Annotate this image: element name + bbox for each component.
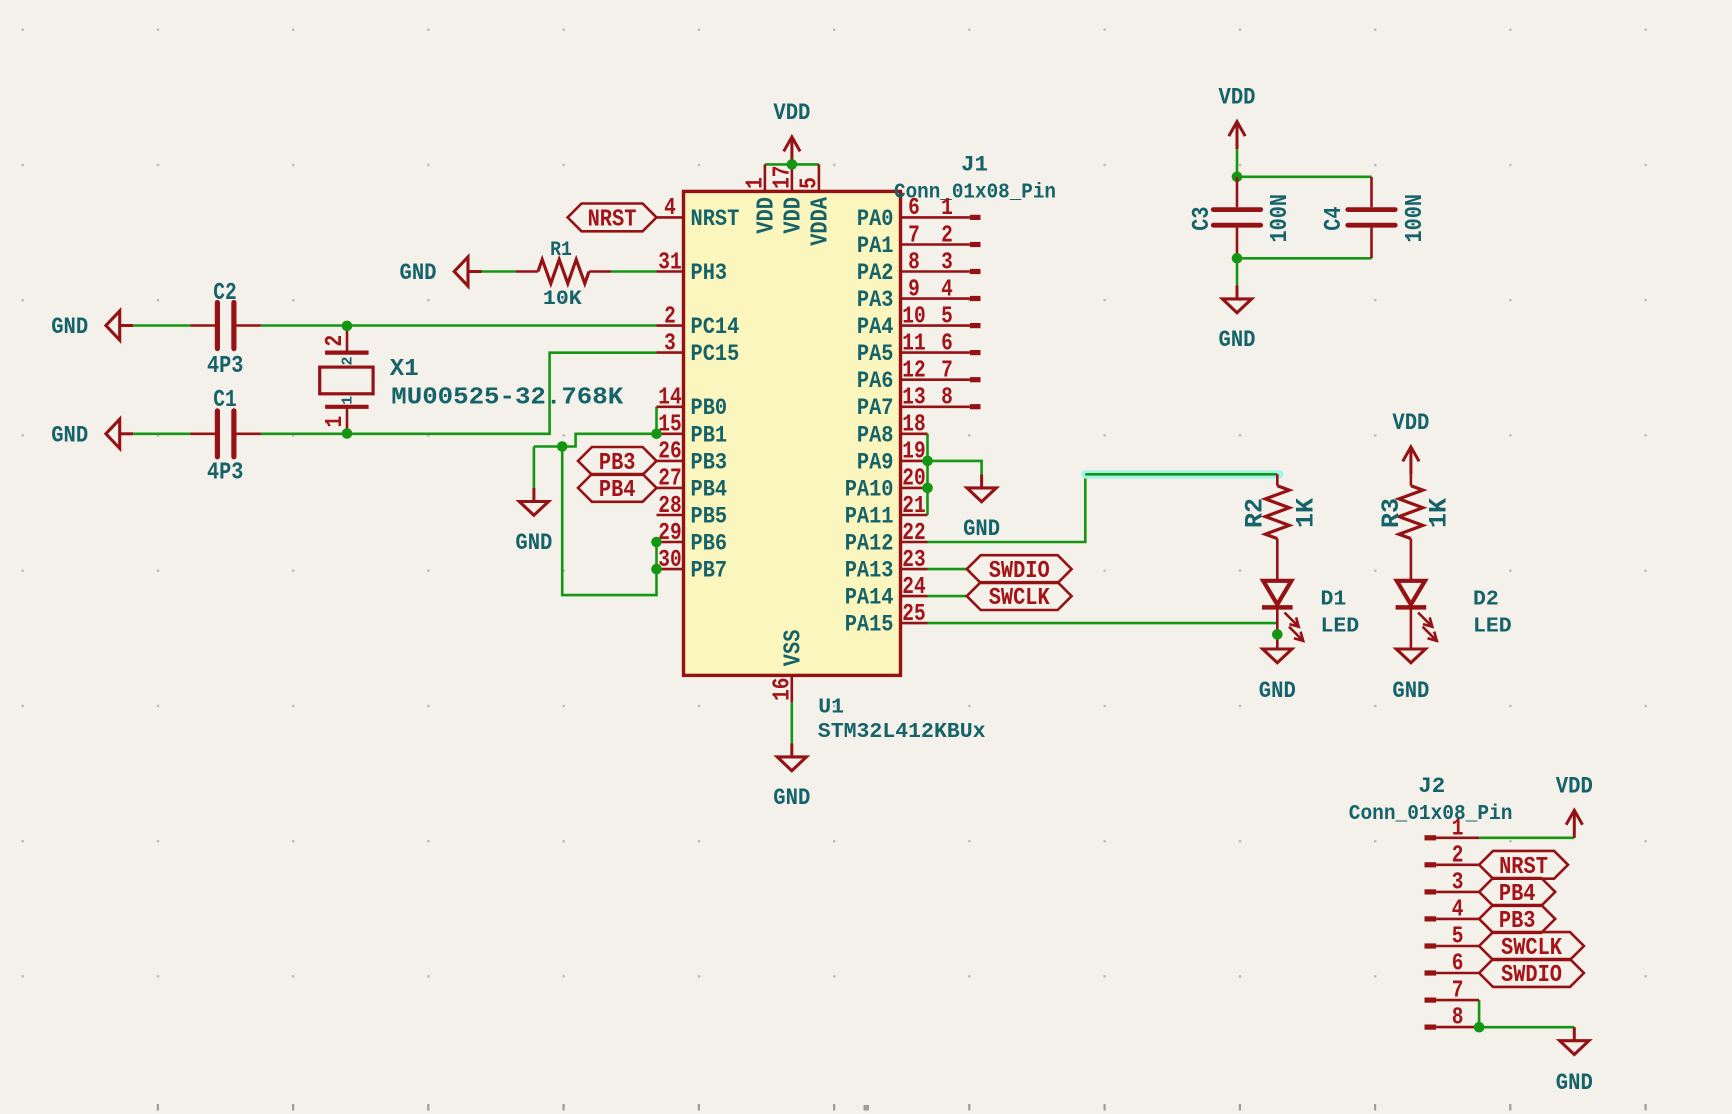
U1 pin 25 PA15 — [901, 622, 928, 625]
wire J2 pin1 to VDD — [1479, 836, 1574, 839]
wire C2 to PC14 (node XTAL2) — [261, 324, 657, 327]
global label PB3 at J2 — [1479, 905, 1555, 933]
svg-text:28: 28 — [658, 493, 681, 520]
junction D1 cathode / PA15 — [1272, 629, 1283, 640]
svg-text:SWCLK: SWCLK — [989, 585, 1051, 612]
global label PB3 — [578, 447, 657, 475]
capacitor C3 100N — [1236, 177, 1239, 207]
U1 pin 14 PB0 — [657, 405, 684, 408]
svg-text:2: 2 — [340, 356, 357, 365]
global label PB4 — [578, 474, 657, 502]
highlighted wire segment to R2 (selected) — [1081, 470, 1283, 478]
svg-text:6: 6 — [1452, 951, 1464, 978]
svg-text:13: 13 — [902, 385, 925, 412]
svg-text:VDD: VDD — [753, 197, 780, 234]
svg-text:1K: 1K — [1292, 498, 1321, 528]
global label SWCLK at J2 — [1479, 932, 1584, 960]
svg-text:Conn_01x08_Pin: Conn_01x08_Pin — [894, 180, 1056, 204]
svg-text:U1: U1 — [818, 695, 844, 719]
svg-text:19: 19 — [902, 439, 925, 466]
svg-text:D2: D2 — [1473, 588, 1499, 612]
U1 pin 22 PA12 — [901, 541, 928, 544]
svg-text:PB6: PB6 — [691, 531, 728, 557]
U1 pin 27 PB4 — [657, 487, 684, 490]
svg-text:PA6: PA6 — [857, 368, 894, 394]
capacitor C1 4P3 — [190, 432, 215, 435]
svg-text:PB5: PB5 — [691, 504, 728, 530]
wire PA12 to R2 — [928, 474, 1086, 542]
svg-text:R1: R1 — [550, 239, 572, 262]
LED D1 — [1263, 581, 1291, 605]
svg-text:GND: GND — [400, 260, 437, 287]
U1 pin 9 PA3 — [901, 297, 928, 300]
svg-text:22: 22 — [902, 520, 925, 547]
svg-text:5: 5 — [1452, 924, 1464, 951]
svg-text:1: 1 — [941, 195, 953, 222]
J1 pin 2 — [928, 243, 970, 246]
svg-text:7: 7 — [908, 222, 920, 249]
J2 pin 5 — [1425, 943, 1437, 948]
U1 pin 12 PA6 — [901, 378, 928, 381]
J2 pin 2 — [1425, 862, 1437, 867]
svg-text:2: 2 — [941, 222, 953, 249]
power GND at C2 — [120, 324, 134, 327]
global label PB4 at J2 — [1479, 878, 1555, 906]
U1 pin 6 PA0 — [901, 216, 928, 219]
wire PA14 to SWCLK label — [928, 595, 967, 598]
svg-text:PA13: PA13 — [845, 558, 894, 584]
wire branch down to GND — [533, 447, 536, 489]
svg-text:X1: X1 — [390, 356, 419, 383]
U1 pin 19 PA9 — [901, 460, 928, 463]
svg-text:PA9: PA9 — [857, 449, 894, 475]
svg-text:100N: 100N — [1267, 194, 1294, 243]
svg-text:GND: GND — [51, 314, 88, 341]
svg-text:14: 14 — [658, 385, 681, 412]
svg-text:8: 8 — [941, 385, 953, 412]
resistor R2 1K — [1276, 474, 1279, 485]
J1 pin 4 — [928, 297, 970, 300]
svg-text:25: 25 — [902, 601, 925, 628]
svg-text:27: 27 — [658, 466, 681, 493]
junction PB7 — [651, 564, 662, 575]
svg-text:3: 3 — [664, 330, 676, 357]
power VDD at C3/C4 — [1236, 122, 1239, 150]
svg-text:LED: LED — [1473, 615, 1512, 639]
svg-text:PA3: PA3 — [857, 287, 894, 313]
wire PA8-PA11 bus — [926, 434, 929, 515]
svg-text:SWDIO: SWDIO — [1501, 962, 1562, 989]
svg-text:GND: GND — [1259, 678, 1296, 705]
svg-text:26: 26 — [658, 439, 681, 466]
svg-text:10: 10 — [902, 303, 925, 330]
svg-text:PA1: PA1 — [857, 233, 894, 259]
U1 pin 28 PB5 — [657, 514, 684, 517]
junction PA9 — [922, 456, 933, 467]
svg-text:GND: GND — [1219, 327, 1256, 354]
svg-text:3: 3 — [1452, 869, 1464, 896]
svg-text:VDD: VDD — [773, 100, 810, 127]
resistor R3 1K — [1410, 474, 1413, 485]
svg-text:20: 20 — [902, 466, 925, 493]
svg-text:1: 1 — [1452, 815, 1464, 842]
global label NRST at U1 — [568, 204, 657, 232]
svg-text:21: 21 — [902, 493, 925, 520]
J2 pin 6 — [1425, 970, 1437, 975]
svg-text:Conn_01x08_Pin: Conn_01x08_Pin — [1349, 802, 1513, 826]
svg-text:2: 2 — [322, 335, 349, 347]
svg-text:31: 31 — [658, 249, 681, 276]
wire C3-C4 bottom — [1237, 257, 1372, 260]
svg-text:4: 4 — [664, 195, 676, 222]
wire C1 to PC15 corner (node XTAL1) — [261, 353, 657, 434]
U1 pin 24 PA14 — [901, 595, 928, 598]
svg-text:GND: GND — [773, 785, 810, 812]
J1 pin 5 — [928, 324, 970, 327]
svg-text:12: 12 — [902, 358, 925, 385]
U1 pin 20 PA10 — [901, 487, 928, 490]
svg-text:1: 1 — [742, 177, 769, 189]
U1 pin 8 PA2 — [901, 270, 928, 273]
U1 pin 7 PA1 — [901, 243, 928, 246]
power GND at VSS — [790, 743, 793, 757]
svg-text:PC14: PC14 — [691, 314, 740, 340]
wire VDD to C3 node — [1236, 149, 1239, 177]
crystal X1 MU00525-32.768K — [346, 326, 349, 353]
U1 pin 13 PA7 — [901, 405, 928, 408]
svg-text:VDD: VDD — [1219, 85, 1256, 112]
svg-text:GND: GND — [515, 530, 552, 557]
J1 pin 1 — [928, 216, 970, 219]
svg-text:9: 9 — [908, 276, 920, 303]
svg-text:PA12: PA12 — [845, 531, 894, 557]
U1 pin 17 VDD (top) — [791, 164, 794, 191]
wire VSS to GND — [790, 702, 793, 743]
svg-text:PA7: PA7 — [857, 395, 894, 421]
wire C3 to GND — [1236, 258, 1239, 285]
global label SWCLK — [967, 582, 1072, 610]
J1 pin 6 — [928, 351, 970, 354]
svg-text:PA10: PA10 — [845, 476, 894, 502]
J2 pin 1 — [1425, 835, 1437, 840]
svg-text:PB4: PB4 — [691, 476, 728, 502]
wire PA13 to SWDIO label — [928, 568, 967, 571]
svg-text:R2: R2 — [1241, 498, 1270, 528]
LED D2 — [1397, 581, 1425, 605]
U1 pin 26 PB3 — [657, 460, 684, 463]
junction X1 pin2 / C2 net — [342, 321, 353, 332]
global label NRST at J2 — [1479, 851, 1568, 879]
U1 pin 1 VDD (top) — [764, 164, 767, 191]
svg-text:3: 3 — [941, 249, 953, 276]
svg-text:7: 7 — [1452, 978, 1464, 1005]
power GND at PA9/PA10 net — [980, 474, 983, 488]
svg-text:LED: LED — [1321, 615, 1360, 639]
svg-text:VDD: VDD — [1556, 773, 1593, 800]
svg-text:8: 8 — [908, 249, 920, 276]
wire VDD top bus (pins 1-17-5) — [765, 163, 819, 166]
junction X1 pin1 / C1 net — [342, 428, 353, 439]
J1 pin 3 — [928, 270, 970, 273]
svg-text:PB3: PB3 — [691, 449, 728, 475]
U1 pin 10 PA4 — [901, 324, 928, 327]
junction GND branch — [557, 441, 568, 452]
svg-text:VDD: VDD — [1392, 410, 1429, 437]
svg-text:2: 2 — [664, 303, 676, 330]
svg-text:4: 4 — [941, 276, 953, 303]
global label SWDIO at J2 — [1479, 959, 1584, 987]
svg-text:NRST: NRST — [691, 206, 740, 232]
IC U1 STM32L412KBUx body — [684, 191, 901, 675]
svg-text:PB4: PB4 — [599, 477, 636, 504]
wire GND to R1 — [482, 270, 517, 273]
svg-text:30: 30 — [658, 547, 681, 574]
svg-text:PC15: PC15 — [691, 341, 740, 367]
U1 pin 5 VDDA (top) — [818, 164, 821, 191]
junction VDD top — [787, 159, 798, 170]
U1 pin 31 PH3 — [657, 270, 684, 273]
power GND at R1 — [468, 270, 482, 273]
svg-text:4P3: 4P3 — [207, 459, 243, 486]
U1 pin 18 PA8 — [901, 432, 928, 435]
J2 pin 8 — [1425, 1025, 1437, 1030]
svg-text:5: 5 — [941, 303, 953, 330]
svg-text:C3: C3 — [1189, 207, 1216, 231]
svg-text:PA4: PA4 — [857, 314, 894, 340]
svg-text:STM32L412KBUx: STM32L412KBUx — [818, 720, 986, 744]
svg-text:PA5: PA5 — [857, 341, 894, 367]
svg-text:C1: C1 — [213, 387, 236, 414]
junction C3 bottom — [1232, 253, 1243, 264]
svg-text:PA11: PA11 — [845, 504, 894, 530]
U1 pin 3 PC15 — [657, 351, 684, 354]
svg-text:VSS: VSS — [780, 630, 807, 667]
wire PA9 to GND — [928, 461, 982, 475]
capacitor C2 4P3 — [190, 324, 215, 327]
svg-text:16: 16 — [769, 678, 796, 701]
power GND at C3/C4 — [1236, 285, 1239, 299]
J1 pin 7 — [928, 378, 970, 381]
svg-text:VDDA: VDDA — [807, 196, 834, 245]
power GND at D2 — [1396, 649, 1425, 663]
svg-text:GND: GND — [1392, 678, 1429, 705]
svg-text:8: 8 — [1452, 1005, 1464, 1032]
svg-text:4: 4 — [1452, 896, 1464, 923]
svg-text:4P3: 4P3 — [207, 353, 243, 380]
power GND at D1 — [1276, 647, 1279, 650]
svg-text:18: 18 — [902, 412, 925, 439]
svg-text:J2: J2 — [1418, 773, 1445, 799]
J2 pin 3 — [1425, 889, 1437, 894]
svg-text:GND: GND — [963, 516, 1000, 543]
svg-text:7: 7 — [941, 358, 953, 385]
junction C3 top — [1232, 172, 1243, 183]
svg-text:C2: C2 — [213, 280, 236, 307]
wire GND to C1 — [133, 432, 190, 435]
svg-text:GND: GND — [51, 422, 88, 449]
svg-text:29: 29 — [658, 520, 681, 547]
svg-text:MU00525-32.768K: MU00525-32.768K — [391, 385, 624, 412]
power GND at PB1 net — [532, 488, 535, 502]
U1 pin 15 PB1 — [657, 432, 684, 435]
U1 pin 4 NRST — [657, 216, 684, 219]
svg-text:100N: 100N — [1402, 194, 1429, 243]
svg-text:11: 11 — [902, 330, 925, 357]
svg-text:5: 5 — [796, 177, 823, 189]
svg-text:PA8: PA8 — [857, 422, 894, 448]
svg-text:PB0: PB0 — [691, 395, 728, 421]
wire PA15 to D1 cathode — [928, 622, 1278, 625]
svg-text:PA0: PA0 — [857, 206, 894, 232]
svg-text:1: 1 — [340, 396, 357, 405]
resistor R1 10K — [516, 270, 538, 273]
U1 pin 23 PA13 — [901, 568, 928, 571]
power VDD at R3 — [1409, 447, 1412, 475]
svg-text:6: 6 — [941, 330, 953, 357]
U1 pin 2 PC14 — [657, 324, 684, 327]
J2 pin 7 — [1425, 998, 1437, 1003]
svg-text:PA14: PA14 — [845, 585, 894, 611]
U1 pin 16 VSS (bottom) — [790, 675, 793, 702]
svg-text:C4: C4 — [1321, 207, 1348, 231]
svg-text:1K: 1K — [1425, 498, 1454, 528]
power GND at C1 — [120, 432, 134, 435]
capacitor C4 100N — [1370, 177, 1373, 207]
wire GND to C2 — [133, 324, 190, 327]
J1 pin 8 — [928, 405, 970, 408]
svg-text:PH3: PH3 — [691, 260, 728, 286]
svg-text:PA15: PA15 — [845, 612, 894, 638]
svg-text:NRST: NRST — [588, 206, 637, 233]
svg-text:VDD: VDD — [780, 197, 807, 234]
global label SWDIO — [967, 555, 1072, 583]
wire R1 to PH3 — [611, 270, 657, 273]
wire J2 pin7 down — [1478, 1000, 1481, 1027]
wire PB1 to GND branch — [534, 434, 657, 447]
wire loop to PB6/PB7 — [562, 447, 656, 596]
svg-text:PB7: PB7 — [691, 558, 728, 584]
U1 pin 30 PB7 — [657, 568, 684, 571]
junction J2 pin8 — [1474, 1022, 1485, 1033]
svg-text:2: 2 — [1452, 842, 1464, 869]
svg-text:PB1: PB1 — [691, 422, 728, 448]
wire J2 pin8 to GND — [1479, 1026, 1574, 1029]
svg-text:24: 24 — [902, 574, 925, 601]
power VDD at U1 top — [790, 137, 793, 165]
U1 pin 21 PA11 — [901, 514, 928, 517]
svg-text:J1: J1 — [961, 152, 988, 178]
U1 pin 29 PB6 — [657, 541, 684, 544]
junction PB0/PB1 — [651, 429, 662, 440]
svg-text:PA2: PA2 — [857, 260, 894, 286]
power VDD at J2 pin1 — [1573, 810, 1576, 838]
junction PA10 — [922, 483, 933, 494]
J2 pin 4 — [1425, 916, 1437, 921]
U1 pin 11 PA5 — [901, 351, 928, 354]
svg-text:GND: GND — [1556, 1070, 1593, 1097]
svg-text:15: 15 — [658, 412, 681, 439]
junction PB6 — [651, 537, 662, 548]
svg-text:R3: R3 — [1377, 498, 1406, 528]
svg-text:D1: D1 — [1321, 588, 1347, 612]
svg-text:23: 23 — [902, 547, 925, 574]
power GND at J2 — [1573, 1027, 1576, 1041]
wire C3-C4 top — [1237, 176, 1372, 179]
svg-text:1: 1 — [322, 416, 349, 428]
wire PB0 stub down — [655, 407, 658, 434]
svg-text:10K: 10K — [543, 288, 582, 311]
